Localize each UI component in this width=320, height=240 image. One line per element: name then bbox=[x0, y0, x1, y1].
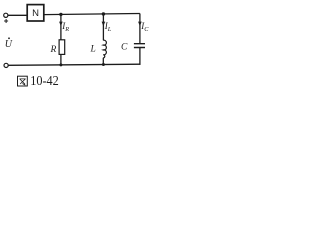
arrow current IC bbox=[138, 22, 142, 27]
node: junction dot R branch top bbox=[59, 13, 62, 16]
wire: bottom bus bbox=[8, 64, 140, 65]
capacitor C plates bbox=[134, 44, 145, 48]
svg-text:C: C bbox=[121, 43, 128, 53]
arrow current IR bbox=[59, 22, 63, 27]
plus polarity mark bbox=[4, 19, 8, 23]
two-terminal network box N bbox=[27, 5, 44, 21]
svg-text:U: U bbox=[5, 39, 13, 50]
dot above U bbox=[8, 37, 10, 39]
node: junction dot L branch bottom bbox=[102, 63, 105, 66]
arrow current IL bbox=[102, 22, 106, 27]
wire: top bus from box N to top-right corner bbox=[44, 14, 140, 15]
terminal bottom-left bbox=[4, 63, 8, 67]
wire: L branch upper segment bbox=[102, 14, 104, 40]
wire: right edge down to capacitor bbox=[139, 14, 141, 44]
svg-text:N: N bbox=[32, 8, 39, 19]
svg-text:L: L bbox=[107, 26, 112, 33]
node: junction dot R branch bottom bbox=[59, 63, 62, 66]
wire: R branch upper segment bbox=[60, 14, 62, 39]
inductor L coil bbox=[103, 40, 106, 58]
wire: R branch lower segment bbox=[60, 54, 62, 65]
wire: top terminal to box N bbox=[8, 14, 27, 16]
caption hanzi tu (figure) bbox=[18, 76, 28, 86]
svg-text:L: L bbox=[90, 45, 96, 55]
svg-text:R: R bbox=[64, 26, 69, 33]
wire: capacitor bottom to bottom-right corner bbox=[139, 48, 141, 65]
resistor R bbox=[59, 40, 65, 55]
terminal top-left bbox=[4, 13, 8, 17]
wire: L branch lower segment bbox=[102, 58, 104, 65]
svg-text:R: R bbox=[50, 45, 57, 55]
node: junction dot L branch top bbox=[102, 12, 105, 15]
svg-text:10-42: 10-42 bbox=[30, 73, 59, 88]
